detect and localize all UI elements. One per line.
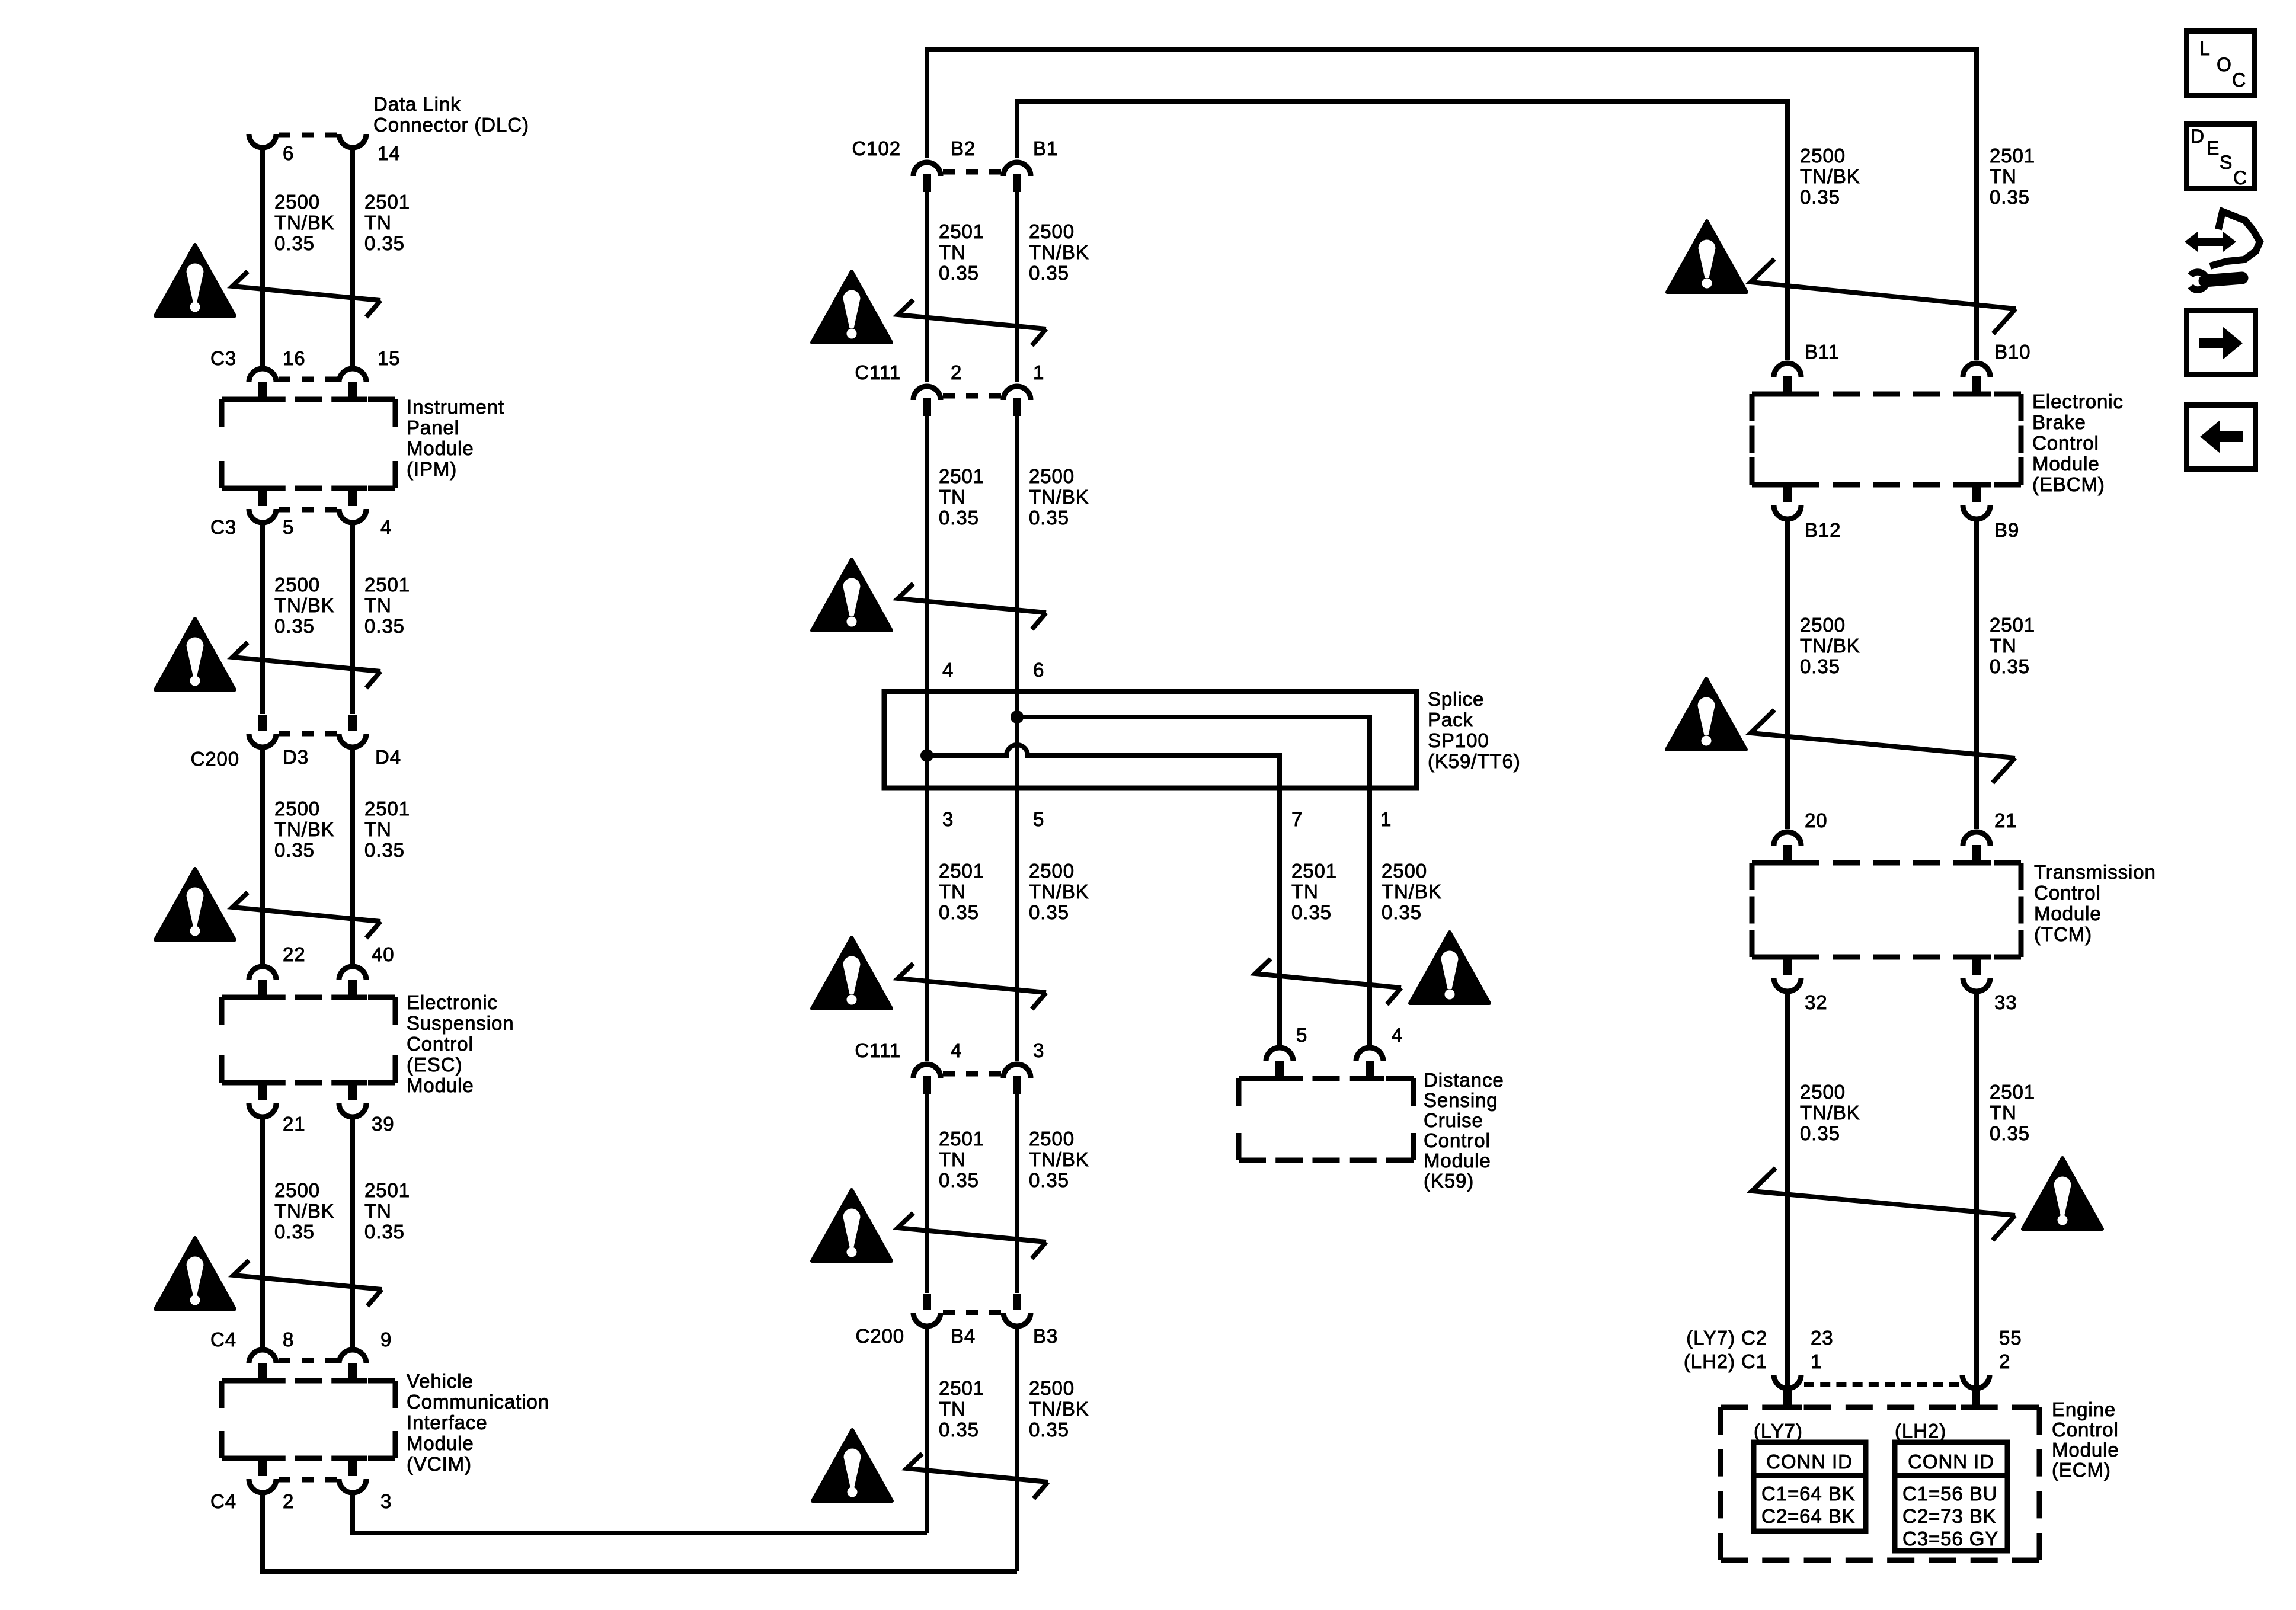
svg-text:2: 2 — [283, 1490, 294, 1512]
connector C200 terminal D3 — [258, 715, 267, 731]
wire 2501 TN IPM-4 to C200-D4 — [350, 523, 355, 714]
svg-text:0.35: 0.35 — [274, 232, 315, 254]
svg-text:3: 3 — [942, 808, 954, 830]
svg-text:Module: Module — [1424, 1150, 1491, 1172]
svg-text:6: 6 — [283, 142, 294, 164]
svg-text:40: 40 — [372, 943, 395, 965]
connector C102 terminal B2 — [923, 174, 931, 192]
svg-text:0.35: 0.35 — [274, 839, 315, 861]
svg-text:Control: Control — [2032, 432, 2099, 454]
svg-text:Control: Control — [2052, 1419, 2119, 1441]
svg-text:C200: C200 — [191, 748, 240, 770]
wire break arrow 1 — [232, 271, 380, 317]
svg-text:C: C — [2232, 69, 2246, 91]
wire 2501 TN C200-B4 down to bottom rail — [925, 1327, 929, 1533]
svg-text:21: 21 — [283, 1113, 306, 1135]
svg-text:Electronic: Electronic — [407, 991, 498, 1013]
svg-text:2501: 2501 — [939, 860, 984, 882]
wire break arrow 2 — [232, 642, 380, 688]
wire break arrow 10 — [1255, 959, 1401, 1004]
svg-text:5: 5 — [1296, 1024, 1307, 1046]
table CONN ID for LY7 — [1754, 1442, 1866, 1531]
svg-text:2500: 2500 — [274, 574, 320, 596]
wire C102 dashed link — [943, 169, 955, 175]
wire DLC dashed link — [279, 133, 290, 138]
connector C3 terminal 4 from IPM — [338, 486, 367, 491]
svg-text:C1=64 BK: C1=64 BK — [1761, 1483, 1856, 1505]
terminal 4 into DSCC — [1355, 1076, 1384, 1081]
module TCM box — [1752, 860, 1779, 866]
wire 2501 TN splice-7 to DSCC-5 — [1277, 788, 1282, 1045]
svg-text:0.35: 0.35 — [1029, 1169, 1069, 1191]
wire 2500 TN/BK ESC-21 to C4-8 — [260, 1117, 265, 1347]
icon forward arrow box — [2187, 311, 2256, 375]
warning triangle 7 — [812, 937, 891, 1009]
svg-text:Control: Control — [1424, 1129, 1491, 1151]
svg-text:2500: 2500 — [1800, 614, 1846, 636]
svg-text:2500: 2500 — [1800, 145, 1846, 167]
svg-text:TN: TN — [939, 486, 966, 508]
wire 2501 TN through splice pack pin4 to pin3 — [925, 692, 929, 788]
wire C3 dashed link lower — [279, 507, 290, 513]
module VCIM box — [222, 1378, 249, 1384]
svg-text:0.35: 0.35 — [939, 507, 979, 529]
svg-text:O: O — [2217, 54, 2232, 75]
wire 2500 TN/BK VCIM-2 down and right to C200-B3 wire — [263, 1493, 1017, 1571]
wire 2500 TN/BK C102-B1 to C111-1 — [1015, 192, 1019, 382]
svg-text:0.35: 0.35 — [1990, 186, 2030, 208]
svg-text:0.35: 0.35 — [364, 1221, 405, 1243]
svg-text:8: 8 — [283, 1329, 294, 1350]
svg-text:22: 22 — [283, 943, 306, 965]
svg-text:(ECM): (ECM) — [2052, 1459, 2111, 1481]
svg-text:TN/BK: TN/BK — [274, 818, 335, 840]
terminal 21 from ESC — [248, 1080, 277, 1086]
svg-text:TN/BK: TN/BK — [1800, 1102, 1860, 1124]
svg-text:TN: TN — [1990, 1102, 2017, 1124]
svg-text:0.35: 0.35 — [1382, 901, 1422, 923]
svg-text:Cruise: Cruise — [1424, 1109, 1483, 1131]
connector C200 terminal D4 — [348, 715, 357, 731]
connector C4 terminal 2 from VCIM — [248, 1456, 277, 1461]
wire C4 dashed link lower — [279, 1477, 290, 1483]
svg-text:Connector (DLC): Connector (DLC) — [373, 114, 529, 136]
wire C200 dashed link — [943, 1310, 955, 1315]
svg-text:TN: TN — [939, 1148, 966, 1170]
svg-text:Splice: Splice — [1428, 688, 1484, 710]
svg-text:B3: B3 — [1033, 1325, 1058, 1347]
svg-text:B2: B2 — [951, 137, 976, 159]
svg-text:(LY7) C2: (LY7) C2 — [1686, 1327, 1767, 1349]
svg-text:Distance: Distance — [1424, 1069, 1504, 1091]
svg-text:TN/BK: TN/BK — [1800, 635, 1860, 657]
svg-text:D3: D3 — [283, 746, 309, 768]
svg-text:B10: B10 — [1994, 341, 2030, 363]
terminal 32 from TCM — [1773, 955, 1802, 960]
svg-text:14: 14 — [378, 142, 401, 164]
wire 2500 TN/BK DLC-6 to IPM-16 — [260, 149, 265, 366]
svg-text:Control: Control — [407, 1033, 474, 1055]
svg-text:Communication: Communication — [407, 1391, 549, 1413]
svg-text:0.35: 0.35 — [274, 1221, 315, 1243]
svg-text:Brake: Brake — [2032, 411, 2086, 433]
svg-text:Module: Module — [407, 1432, 474, 1454]
wire C3 dashed link — [279, 377, 290, 382]
svg-text:Pack: Pack — [1428, 709, 1473, 731]
svg-text:TN/BK: TN/BK — [1029, 1398, 1089, 1420]
svg-text:E: E — [2207, 137, 2220, 159]
svg-text:2500: 2500 — [1029, 860, 1075, 882]
svg-text:(K59): (K59) — [1424, 1170, 1474, 1192]
svg-text:2501: 2501 — [939, 1377, 984, 1399]
terminal 39 from ESC — [338, 1080, 367, 1086]
terminal B11 into EBCM — [1773, 392, 1802, 397]
svg-text:2501: 2501 — [939, 220, 984, 242]
wire break arrow 11 — [1751, 259, 2016, 334]
wire 2500 TN/BK C200-D3 to ESC-22 — [260, 748, 265, 964]
warning triangle 5 — [812, 271, 891, 343]
svg-text:C111: C111 — [855, 1039, 901, 1061]
terminal B9 from EBCM — [1962, 482, 1991, 488]
svg-text:3: 3 — [1033, 1039, 1044, 1061]
svg-text:Engine: Engine — [2052, 1398, 2116, 1420]
wire C111 dashed link — [943, 393, 955, 399]
svg-text:4: 4 — [951, 1039, 962, 1061]
svg-text:2501: 2501 — [939, 465, 984, 487]
wire break arrow 4 — [234, 1260, 382, 1306]
svg-text:4: 4 — [1392, 1024, 1403, 1046]
svg-text:S: S — [2220, 152, 2233, 173]
svg-text:C: C — [2233, 167, 2247, 188]
wire break arrow 8 — [898, 1213, 1046, 1259]
terminal B12 from EBCM — [1773, 482, 1802, 488]
svg-text:Panel: Panel — [407, 417, 459, 438]
svg-text:16: 16 — [283, 347, 306, 369]
svg-text:(LH2): (LH2) — [1895, 1420, 1946, 1442]
svg-text:Module: Module — [2034, 902, 2102, 924]
svg-text:20: 20 — [1805, 809, 1828, 831]
connector terminal 55/2 into ECM — [1962, 1375, 1990, 1388]
svg-text:5: 5 — [1033, 808, 1044, 830]
wire 2501 TN C200-D4 to ESC-40 — [350, 748, 355, 964]
svg-text:2501: 2501 — [1990, 614, 2035, 636]
svg-text:TN: TN — [1990, 635, 2017, 657]
wire 2501 TN EBCM-B9 to TCM-21 — [1974, 519, 1979, 829]
svg-text:CONN ID: CONN ID — [1908, 1451, 1994, 1473]
warning triangle 9 — [813, 1430, 892, 1501]
svg-text:2501: 2501 — [364, 574, 410, 596]
svg-text:B11: B11 — [1805, 341, 1840, 363]
svg-text:SP100: SP100 — [1428, 729, 1489, 751]
svg-text:B9: B9 — [1994, 519, 2019, 541]
terminal 21 into TCM — [1962, 860, 1991, 866]
warning triangle 12 — [1667, 678, 1746, 750]
svg-text:C3: C3 — [210, 347, 236, 369]
wire 2501 TN TCM-33 to ECM-55 — [1974, 991, 1979, 1387]
terminal 33 from TCM — [1962, 955, 1991, 960]
svg-text:(TCM): (TCM) — [2034, 923, 2092, 945]
terminal 20 into TCM — [1773, 860, 1802, 866]
wire 2501 TN VCIM-3 down and right to C200-B4 wire — [353, 1493, 927, 1533]
svg-text:L: L — [2199, 38, 2211, 59]
svg-text:32: 32 — [1805, 991, 1828, 1013]
warning triangle 6 — [812, 559, 891, 630]
wire 2500 TN/BK C111-3 to C200-B3 — [1015, 1094, 1019, 1293]
svg-text:Module: Module — [407, 437, 474, 459]
svg-text:1: 1 — [1811, 1350, 1822, 1372]
splice bus 2500 TN/BK to pin 1 — [1017, 717, 1370, 788]
warning triangle 13 — [2023, 1158, 2102, 1229]
svg-text:0.35: 0.35 — [939, 901, 979, 923]
svg-text:2501: 2501 — [364, 798, 410, 820]
icon DESC box — [2187, 124, 2255, 189]
svg-text:TN/BK: TN/BK — [1382, 881, 1442, 902]
wire 2501 TN ESC-39 to C4-9 — [350, 1117, 355, 1347]
warning triangle 11 — [1667, 221, 1747, 292]
wire C200 dashed link — [279, 731, 290, 737]
svg-text:TN: TN — [364, 212, 392, 233]
svg-text:0.35: 0.35 — [1990, 1122, 2030, 1144]
svg-text:D: D — [2191, 126, 2205, 147]
svg-text:Transmission: Transmission — [2034, 861, 2156, 883]
svg-text:B12: B12 — [1805, 519, 1841, 541]
svg-text:1: 1 — [1380, 808, 1392, 830]
svg-text:TN: TN — [939, 881, 966, 902]
svg-text:TN: TN — [364, 818, 392, 840]
wire C111 dashed link lower — [943, 1071, 955, 1077]
icon back arrow box — [2187, 405, 2256, 469]
connector C4 terminal 9 into VCIM — [338, 1378, 367, 1384]
svg-text:(LY7): (LY7) — [1754, 1420, 1803, 1442]
svg-text:C3: C3 — [210, 516, 236, 538]
module ECM box — [1721, 1405, 1748, 1410]
warning triangle 3 — [155, 869, 235, 940]
svg-text:2501: 2501 — [1291, 860, 1337, 882]
svg-text:2500: 2500 — [274, 1179, 320, 1201]
wire 2500 TN/BK TCM-32 to ECM-23 — [1785, 991, 1790, 1387]
svg-text:0.35: 0.35 — [1990, 655, 2030, 677]
wire 2501 TN splice-3 to C111-4 — [925, 788, 929, 1061]
svg-text:2500: 2500 — [1800, 1081, 1846, 1103]
connector C111 terminal 1 — [1013, 398, 1021, 416]
svg-text:33: 33 — [1994, 991, 2017, 1013]
svg-text:23: 23 — [1811, 1327, 1834, 1349]
wire 2501 TN C102-B2 to C111-2 — [925, 192, 929, 382]
warning triangle 2 — [155, 619, 235, 690]
svg-text:TN: TN — [939, 1398, 966, 1420]
svg-text:5: 5 — [283, 516, 294, 538]
svg-text:Data Link: Data Link — [373, 93, 461, 115]
svg-text:2501: 2501 — [1990, 145, 2035, 167]
svg-text:TN/BK: TN/BK — [1029, 486, 1089, 508]
module ESC box — [222, 995, 249, 1000]
svg-text:(IPM): (IPM) — [407, 458, 457, 480]
wire break arrow 13 — [1752, 1168, 2015, 1240]
svg-text:0.35: 0.35 — [1029, 1419, 1069, 1441]
wire break arrow 3 — [232, 892, 380, 938]
svg-text:Module: Module — [407, 1074, 474, 1096]
module DSCC box — [1239, 1076, 1266, 1081]
svg-text:TN/BK: TN/BK — [1029, 1148, 1089, 1170]
svg-text:C4: C4 — [210, 1329, 236, 1350]
connector C102 terminal B1 — [1013, 174, 1021, 192]
wire 2501 TN C111-4 to C200-B4 — [925, 1094, 929, 1293]
wire break arrow 7 — [898, 964, 1046, 1009]
svg-text:2501: 2501 — [364, 1179, 410, 1201]
wire break arrow 5 — [898, 300, 1046, 345]
wire 2501 TN DLC-14 to IPM-15 — [350, 149, 355, 366]
connector C111 terminal 3 — [1013, 1076, 1021, 1094]
connector C3 terminal 16 into IPM — [248, 397, 277, 402]
connector C4 terminal 8 into VCIM — [248, 1378, 277, 1384]
svg-text:0.35: 0.35 — [1800, 186, 1840, 208]
svg-text:Control: Control — [2034, 882, 2101, 904]
svg-text:2500: 2500 — [274, 191, 320, 213]
svg-text:0.35: 0.35 — [1029, 507, 1069, 529]
svg-text:(EBCM): (EBCM) — [2032, 473, 2105, 495]
svg-text:(ESC): (ESC) — [407, 1054, 462, 1076]
module IPM box — [222, 397, 249, 402]
wire 2500 TN/BK through splice pack pin6 to pin5 — [1015, 692, 1019, 788]
svg-text:0.35: 0.35 — [1800, 655, 1840, 677]
svg-text:Suspension: Suspension — [407, 1012, 514, 1034]
svg-text:C200: C200 — [856, 1325, 905, 1347]
svg-text:2501: 2501 — [1990, 1081, 2035, 1103]
svg-text:TN/BK: TN/BK — [274, 594, 335, 616]
svg-text:Instrument: Instrument — [407, 396, 504, 418]
svg-text:Electronic: Electronic — [2032, 391, 2124, 412]
svg-text:TN/BK: TN/BK — [1800, 165, 1860, 187]
svg-text:C4: C4 — [210, 1490, 236, 1512]
svg-text:Interface: Interface — [407, 1411, 488, 1433]
wire 2500 TN/BK C200-B3 down to bottom rail — [1015, 1327, 1019, 1571]
junction dot on 2501 TN bus — [920, 749, 933, 762]
terminal 40 into ESC — [338, 995, 367, 1000]
warning triangle 1 — [155, 245, 235, 316]
svg-text:CONN ID: CONN ID — [1766, 1451, 1853, 1473]
svg-text:2501: 2501 — [939, 1128, 984, 1150]
icon harness routing with wrench — [2210, 212, 2260, 266]
terminal B10 into EBCM — [1962, 392, 1991, 397]
svg-text:B1: B1 — [1033, 137, 1058, 159]
svg-text:(K59/TT6): (K59/TT6) — [1428, 750, 1521, 772]
svg-text:0.35: 0.35 — [939, 1169, 979, 1191]
svg-text:0.35: 0.35 — [364, 839, 405, 861]
svg-text:0.35: 0.35 — [1029, 901, 1069, 923]
connector C3 terminal 5 from IPM — [248, 486, 277, 491]
svg-text:0.35: 0.35 — [274, 615, 315, 637]
connector C111 terminal 2 — [923, 398, 931, 416]
svg-text:2: 2 — [1999, 1350, 2010, 1372]
svg-text:6: 6 — [1033, 659, 1044, 681]
svg-text:2500: 2500 — [1029, 465, 1075, 487]
wire 2501 TN top rail C102-B2 to EBCM-B10 — [927, 50, 1977, 360]
connector terminal 23/1 into ECM — [1774, 1375, 1801, 1388]
svg-text:39: 39 — [372, 1113, 395, 1135]
svg-text:2500: 2500 — [1029, 220, 1075, 242]
wire 2500 TN/BK splice-1 to DSCC-4 — [1367, 788, 1372, 1045]
connector C111 terminal 4 — [923, 1076, 931, 1094]
svg-text:(LH2) C1: (LH2) C1 — [1684, 1350, 1767, 1372]
svg-text:0.35: 0.35 — [1800, 1122, 1840, 1144]
svg-text:C2=64 BK: C2=64 BK — [1761, 1505, 1856, 1527]
svg-text:1: 1 — [1033, 361, 1044, 383]
svg-text:Vehicle: Vehicle — [407, 1370, 474, 1392]
svg-text:C111: C111 — [855, 361, 901, 383]
svg-text:TN: TN — [1291, 881, 1319, 902]
svg-text:TN/BK: TN/BK — [1029, 881, 1089, 902]
svg-text:3: 3 — [380, 1490, 392, 1512]
svg-text:9: 9 — [380, 1329, 392, 1350]
svg-text:21: 21 — [1994, 809, 2017, 831]
svg-text:55: 55 — [1999, 1327, 2022, 1349]
wire break arrow 6 — [898, 584, 1046, 629]
wire break arrow 9 — [907, 1454, 1048, 1499]
wire 2501 TN C111-2 to splice pack pin 4 — [925, 416, 929, 692]
svg-text:4: 4 — [942, 659, 954, 681]
svg-text:C1=56 BU: C1=56 BU — [1902, 1483, 1997, 1505]
connector DLC pins 6/14 (Data Link Connector) — [249, 134, 276, 148]
svg-text:B4: B4 — [951, 1325, 976, 1347]
svg-text:0.35: 0.35 — [364, 615, 405, 637]
splice bus 2501 TN with hop over 2500 wire to pin 7 — [927, 745, 1280, 788]
wire 2500 TN/BK IPM-5 to C200-D3 — [260, 523, 265, 714]
svg-text:TN/BK: TN/BK — [274, 1200, 335, 1222]
svg-text:2500: 2500 — [274, 798, 320, 820]
connector C4 terminal 3 from VCIM — [338, 1456, 367, 1461]
svg-text:4: 4 — [380, 516, 392, 538]
svg-text:2500: 2500 — [1029, 1377, 1075, 1399]
svg-text:7: 7 — [1291, 808, 1303, 830]
wire C4 dashed link — [279, 1358, 290, 1363]
svg-text:C3=56 GY: C3=56 GY — [1902, 1528, 1998, 1550]
svg-text:TN: TN — [1990, 165, 2017, 187]
connector C200 terminal B4 — [923, 1294, 931, 1310]
terminal 5 into DSCC — [1265, 1076, 1294, 1081]
svg-text:Module: Module — [2052, 1439, 2119, 1461]
svg-text:2500: 2500 — [1382, 860, 1427, 882]
svg-text:D4: D4 — [375, 746, 401, 768]
warning triangle 10 — [1410, 932, 1489, 1003]
junction dot on 2500 TN/BK bus — [1011, 710, 1024, 724]
svg-text:0.35: 0.35 — [939, 262, 979, 284]
wire 2500 TN/BK splice-5 to C111-3 — [1015, 788, 1019, 1061]
connector C3 terminal 15 into IPM — [338, 397, 367, 402]
svg-text:15: 15 — [378, 347, 401, 369]
svg-text:0.35: 0.35 — [939, 1419, 979, 1441]
svg-text:TN: TN — [364, 1200, 392, 1222]
warning triangle 4 — [155, 1238, 235, 1309]
svg-text:TN: TN — [364, 594, 392, 616]
svg-text:Module: Module — [2032, 453, 2100, 475]
svg-text:(VCIM): (VCIM) — [407, 1453, 472, 1475]
terminal 22 into ESC — [248, 995, 277, 1000]
wire 2500 TN/BK EBCM-B12 to TCM-20 — [1785, 519, 1790, 829]
svg-text:0.35: 0.35 — [1029, 262, 1069, 284]
svg-text:0.35: 0.35 — [1291, 901, 1332, 923]
svg-text:TN/BK: TN/BK — [1029, 241, 1089, 263]
module EBCM box — [1752, 392, 1779, 397]
wire 2500 TN/BK C111-1 to splice pack pin 6 — [1015, 416, 1019, 692]
wire break arrow 12 — [1751, 710, 2015, 783]
svg-text:TN: TN — [939, 241, 966, 263]
svg-text:C102: C102 — [852, 137, 901, 159]
table CONN ID for LH2 — [1895, 1442, 2007, 1551]
svg-text:2501: 2501 — [364, 191, 410, 213]
svg-text:Sensing: Sensing — [1424, 1089, 1498, 1111]
connector C200 terminal B3 — [1013, 1294, 1021, 1310]
svg-text:2: 2 — [951, 361, 962, 383]
